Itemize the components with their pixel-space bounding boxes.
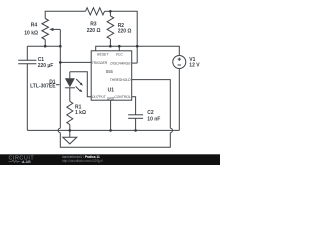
wire top: R4 top to R3 left xyxy=(45,11,85,18)
junction dot GND stub xyxy=(109,129,112,132)
svg-text:1 kΩ: 1 kΩ xyxy=(75,110,86,116)
voltage source V1 xyxy=(173,56,186,69)
footer bar xyxy=(0,154,220,165)
svg-text:555: 555 xyxy=(106,69,114,74)
junction dot C2 bottom xyxy=(134,129,137,132)
junction dot VCC stub on rail xyxy=(118,45,121,48)
wire node A to discharge line xyxy=(110,11,137,63)
svg-text:◂LAB: ◂LAB xyxy=(21,160,32,164)
wire trigger stub xyxy=(60,61,91,63)
node A junction dot xyxy=(109,10,112,13)
junction dot R4 bottom xyxy=(44,45,47,48)
svg-text:R3: R3 xyxy=(90,22,97,28)
svg-text:http://circuitlab.com/c/32SjyV: http://circuitlab.com/c/32SjyV xyxy=(62,159,104,163)
LED D1 xyxy=(65,72,75,102)
wire C1 top to R4 bottom xyxy=(27,45,60,47)
svg-text:RESET: RESET xyxy=(97,53,109,57)
wire trigger/threshold vertical xyxy=(59,46,61,128)
svg-text:10 kΩ: 10 kΩ xyxy=(24,30,38,36)
svg-text:220 Ω: 220 Ω xyxy=(118,29,132,35)
wire VCC rail xyxy=(96,46,180,55)
svg-text:VCC: VCC xyxy=(116,53,124,57)
svg-text:LTL-307EE: LTL-307EE xyxy=(30,83,56,89)
capacitor C2 xyxy=(128,115,143,131)
wire hop over ground rail (left) xyxy=(58,128,60,132)
capacitor C1 xyxy=(18,46,36,130)
svg-text:THRESHOLD: THRESHOLD xyxy=(110,78,131,82)
wire to bottom trigger rail xyxy=(60,133,170,148)
svg-text:220 Ω: 220 Ω xyxy=(87,28,101,34)
potentiometer R4 wiper arrow xyxy=(49,28,60,47)
footer logo LAB xyxy=(9,160,32,164)
junction dot trigger stub xyxy=(59,61,62,64)
wire discharge stub xyxy=(132,62,138,64)
ground xyxy=(63,130,77,144)
wire V1 bottom xyxy=(178,69,180,131)
wire hop over ground rail (right) xyxy=(170,128,172,132)
junction dot wiper on trigger line xyxy=(59,45,62,48)
wire ground rail xyxy=(27,129,179,131)
svg-text:220 µF: 220 µF xyxy=(38,63,54,69)
svg-text:OUTPUT: OUTPUT xyxy=(92,95,107,99)
wire control stub to C2 xyxy=(132,97,136,115)
LED light arrow 1 xyxy=(76,79,83,86)
svg-text:C2: C2 xyxy=(147,110,154,116)
wire threshold line up xyxy=(132,80,171,129)
svg-text:10 nF: 10 nF xyxy=(147,117,160,123)
wire output stub xyxy=(70,72,92,97)
svg-text:DISCHARGE: DISCHARGE xyxy=(110,61,131,65)
junction dot discharge line on rail xyxy=(136,45,139,48)
op-amp U1 555 timer box xyxy=(91,51,132,100)
wire VCC pin stub xyxy=(118,46,120,51)
footer title line xyxy=(62,155,104,163)
svg-text:CONTROL: CONTROL xyxy=(114,95,131,99)
resistor R3 xyxy=(86,8,105,15)
resistor R1 xyxy=(67,101,73,130)
label leader dash xyxy=(56,84,60,86)
LED light arrow 2 xyxy=(76,86,83,92)
svg-text:TRIGGER: TRIGGER xyxy=(92,61,108,65)
svg-text:R4: R4 xyxy=(31,23,38,29)
resistor R4 (potentiometer body) xyxy=(42,19,49,47)
svg-text:12 V: 12 V xyxy=(189,63,200,69)
junction dot R1 bottom xyxy=(69,129,72,132)
svg-text:U1: U1 xyxy=(108,88,115,94)
wire GND pin stub xyxy=(110,100,112,130)
junction dot R2 bottom on rail xyxy=(109,45,112,48)
wire R3 right to node A xyxy=(105,10,111,12)
resistor R2 xyxy=(107,11,114,46)
